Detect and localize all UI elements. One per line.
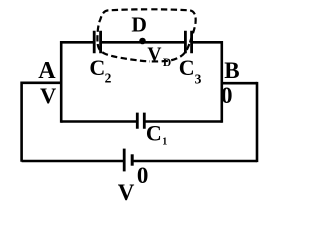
dashed boundary: right edge upper part through C3 and top-right corner (150, 9, 196, 42)
node D dot (139, 38, 146, 45)
svg-text:0: 0 (221, 83, 233, 108)
wire node A lead (22, 82, 62, 85)
battery V0 short plate (131, 154, 134, 165)
wire node B lead (222, 82, 257, 85)
svg-text:D: D (163, 57, 171, 69)
wire outer right vertical (256, 82, 259, 162)
svg-text:C: C (89, 55, 105, 80)
svg-text:V: V (147, 44, 161, 65)
battery V0 long plate (123, 149, 126, 172)
capacitor C1 plates (137, 113, 144, 129)
svg-text:A: A (38, 58, 56, 84)
svg-text:C: C (179, 55, 195, 80)
wire top branch middle segment (101, 41, 186, 44)
wire inner left vertical (60, 41, 63, 123)
svg-text:V: V (118, 180, 135, 205)
wire top branch left segment (61, 41, 94, 44)
dashed boundary: left edge lower part and bottom-left edge (98, 44, 150, 61)
dashed boundary around isolated conductor: left edge upper part through C2 and top-left corner (97, 9, 150, 41)
svg-text:B: B (224, 58, 239, 83)
svg-text:1: 1 (162, 136, 167, 147)
wire middle branch left segment (61, 120, 137, 123)
wire bottom branch right segment (132, 160, 257, 163)
wire top branch right segment (192, 41, 222, 44)
dashed boundary: right edge lower part and bottom-right edge (150, 44, 189, 61)
svg-text:D: D (131, 12, 147, 36)
wire middle branch right segment (144, 120, 222, 123)
capacitor C2 plates (94, 31, 100, 53)
svg-text:C: C (146, 120, 162, 145)
wire bottom branch left segment (22, 160, 125, 163)
svg-text:V: V (40, 83, 56, 108)
wire inner right vertical (221, 41, 224, 123)
svg-text:0: 0 (137, 163, 149, 188)
wire outer left vertical (20, 82, 23, 162)
svg-text:3: 3 (195, 71, 202, 86)
capacitor C3 plates (185, 31, 191, 53)
svg-text:2: 2 (105, 71, 112, 86)
